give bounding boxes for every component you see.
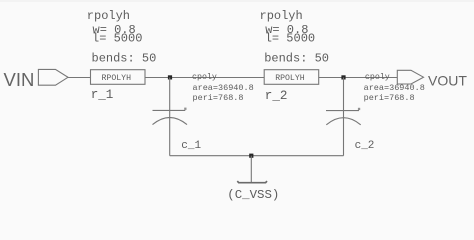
ground C_VSS bar	[237, 181, 267, 183]
resistor r_1 (RPOLYH)	[91, 70, 146, 85]
svg-text:area=36940.8: area=36940.8	[193, 83, 254, 93]
pin VOUT	[397, 70, 423, 84]
svg-text:area=36940.8: area=36940.8	[364, 83, 425, 93]
wire VIN to r_1	[68, 77, 91, 79]
svg-text:l= 5000: l= 5000	[265, 32, 315, 46]
svg-text:RPOLYH: RPOLYH	[275, 74, 305, 83]
svg-text:rpolyh: rpolyh	[260, 9, 303, 23]
svg-text:cpoly: cpoly	[365, 72, 390, 82]
svg-text:VOUT: VOUT	[428, 72, 467, 88]
capacitor c_2	[326, 108, 361, 125]
junction node n1	[168, 75, 172, 79]
capacitor c_1	[153, 108, 188, 125]
junction node n2	[341, 75, 345, 79]
svg-text:bends: 50: bends: 50	[264, 51, 329, 65]
wire bottom rail	[170, 155, 344, 157]
svg-text:rpolyh: rpolyh	[87, 9, 130, 23]
junction on bottom rail	[249, 154, 253, 158]
svg-text:l= 5000: l= 5000	[92, 32, 142, 46]
svg-text:r_2: r_2	[265, 89, 288, 103]
svg-text:c_1: c_1	[181, 140, 201, 152]
wire rail to ground	[250, 156, 252, 183]
pin VIN	[38, 69, 68, 85]
svg-text:peri=768.8: peri=768.8	[193, 93, 244, 103]
svg-text:bends: 50: bends: 50	[92, 51, 157, 65]
svg-text:peri=768.8: peri=768.8	[364, 93, 415, 103]
resistor r_2 (RPOLYH)	[264, 70, 319, 85]
wire r_2 to VOUT	[319, 77, 398, 79]
svg-text:c_2: c_2	[355, 140, 375, 152]
svg-text:(C_VSS): (C_VSS)	[227, 188, 279, 202]
svg-text:r_1: r_1	[91, 88, 114, 102]
wire n2 down through c_2 to bottom rail	[343, 78, 345, 156]
wire n1 down through c_1 to bottom rail	[169, 78, 171, 156]
svg-text:VIN: VIN	[4, 69, 35, 90]
svg-text:RPOLYH: RPOLYH	[102, 74, 132, 83]
svg-text:cpoly: cpoly	[192, 72, 217, 82]
wire r_1 to r_2	[145, 77, 264, 79]
